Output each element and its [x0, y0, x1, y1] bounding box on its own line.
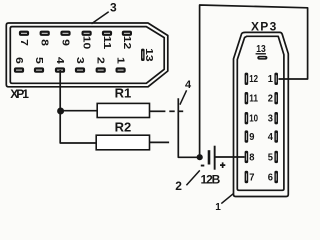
svg-text:7: 7	[249, 172, 255, 183]
XP1 pin 11 contact bar	[102, 31, 112, 36]
node 2 leader line	[186, 170, 199, 185]
svg-text:1: 1	[215, 202, 221, 213]
svg-text:1: 1	[268, 74, 274, 85]
XP3 pin 7 contact bar	[245, 171, 249, 183]
node 3 leader line	[92, 12, 109, 24]
junction node at R1 branch	[57, 108, 64, 115]
XP1 pin 3 contact bar	[75, 67, 85, 72]
svg-text:9: 9	[59, 39, 70, 46]
wire break dash after test point 4	[178, 110, 183, 112]
svg-text:XP1: XP1	[10, 87, 29, 101]
svg-text:2: 2	[268, 94, 274, 105]
svg-text:4: 4	[54, 57, 65, 64]
battery GB 12V positive plate (long)	[214, 146, 216, 170]
wire break dash before test point 4	[169, 110, 174, 112]
svg-text:10: 10	[249, 114, 258, 125]
svg-text:10: 10	[81, 36, 92, 50]
svg-text:5: 5	[33, 57, 44, 64]
svg-text:2: 2	[175, 179, 182, 193]
XP3 pin 13 underline	[256, 53, 266, 55]
connector XP1 shell inner outline	[10, 27, 164, 84]
XP1 pin 2 contact bar	[96, 67, 106, 72]
XP3 pin 9 contact bar	[245, 130, 249, 142]
XP3 pin 8 contact bar	[245, 151, 249, 163]
XP1 pin 13 contact bar	[141, 49, 145, 61]
connector XP3 shell outer outline	[234, 32, 289, 196]
resistor R1 body	[97, 103, 149, 117]
XP1 pin 9 contact bar	[60, 31, 70, 36]
XP1 pin 12 contact bar	[122, 31, 132, 36]
svg-text:6: 6	[13, 57, 24, 64]
XP1 pin 4 contact bar	[55, 67, 65, 72]
wire R2 output (open ended)	[150, 141, 170, 143]
XP3 pin 4 contact bar	[274, 130, 278, 142]
svg-text:12: 12	[249, 74, 258, 85]
svg-text:13: 13	[143, 48, 154, 62]
wire loop from junction up over to XP3 pin 1	[200, 5, 308, 157]
resistor R2 body	[96, 135, 149, 150]
svg-text:1: 1	[115, 57, 126, 64]
wire battery + to XP3 pin 8	[216, 156, 245, 158]
svg-text:9: 9	[249, 132, 255, 143]
svg-text:3: 3	[268, 114, 274, 125]
svg-text:XP3: XP3	[251, 20, 277, 34]
svg-text:R1: R1	[115, 86, 132, 101]
XP3 pin 3 contact bar	[274, 112, 278, 124]
XP1 pin 1 contact bar	[116, 67, 126, 72]
junction node at battery	[197, 154, 203, 160]
svg-text:12: 12	[121, 36, 132, 50]
wire from XP1 pin 4 down to R2 branch	[60, 70, 96, 143]
svg-text:5: 5	[268, 152, 274, 163]
XP3 pin 6 contact bar	[274, 171, 278, 183]
XP3 pin 10 contact bar	[245, 112, 249, 124]
XP1 pin 8 contact bar	[40, 31, 50, 36]
XP1 pin 5 contact bar	[34, 67, 44, 72]
XP3 pin 11 contact bar	[245, 92, 249, 104]
svg-text:11: 11	[101, 36, 112, 50]
XP3 pin 1 contact bar	[274, 73, 278, 85]
battery GB 12V negative plate (short)	[208, 150, 211, 164]
svg-text:8: 8	[39, 39, 50, 46]
svg-text:4: 4	[268, 132, 274, 143]
XP1 pin 7 contact bar	[19, 31, 29, 36]
svg-text:4: 4	[185, 79, 192, 91]
XP1 pin 10 contact bar	[82, 31, 92, 36]
svg-text:12B: 12B	[201, 173, 221, 187]
node 1 leader line	[221, 193, 233, 203]
battery minus sign	[201, 165, 205, 167]
svg-text:7: 7	[18, 39, 29, 46]
svg-text:3: 3	[110, 1, 117, 15]
node 4 leader line	[180, 90, 187, 104]
battery plus sign	[220, 162, 225, 168]
XP3 pin 13 contact bar	[257, 56, 267, 60]
svg-text:2: 2	[95, 57, 106, 64]
XP3 pin 12 contact bar	[245, 73, 249, 85]
svg-text:8: 8	[249, 152, 255, 163]
XP3 pin 5 contact bar	[274, 151, 278, 163]
svg-text:R2: R2	[115, 120, 132, 135]
wire R1 output	[150, 110, 166, 112]
test probe wire 4 vertical	[178, 98, 199, 157]
XP3 pin 2 contact bar	[274, 92, 278, 104]
svg-text:11: 11	[249, 94, 258, 105]
svg-text:3: 3	[74, 57, 85, 64]
connector XP3 shell inner outline	[237, 36, 284, 190]
XP1 pin 6 contact bar	[14, 67, 24, 72]
connector XP1 shell outer outline	[6, 23, 168, 87]
wire junction to R1	[61, 110, 98, 112]
svg-text:6: 6	[268, 172, 274, 183]
